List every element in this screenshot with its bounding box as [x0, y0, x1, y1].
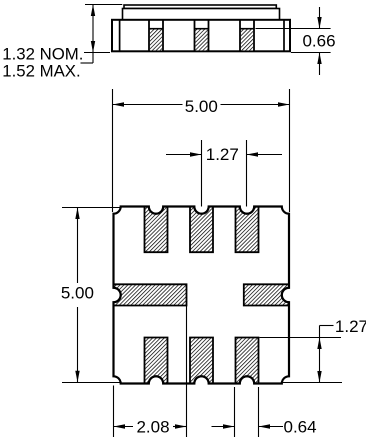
dimension 1.32/1.52 (left height) [81, 5, 123, 64]
svg-text:1.27: 1.27 [335, 317, 366, 336]
pad top-3 [236, 207, 259, 253]
castellation notch bottom-1 [149, 376, 163, 383]
castellation notch right [282, 288, 289, 302]
package outline with corner cutouts [114, 207, 290, 384]
dimension 5.00 (left height) [62, 208, 120, 383]
svg-text:1.52 MAX.: 1.52 MAX. [2, 62, 80, 81]
svg-text:2.08: 2.08 [136, 417, 169, 436]
side pad 1 [149, 20, 163, 52]
dimension 0.66 (right height) [256, 7, 331, 75]
castellation notch top-2 [194, 207, 208, 214]
svg-text:5.00: 5.00 [61, 284, 94, 303]
pad top-2 [190, 207, 213, 253]
pad mid-left [114, 284, 187, 305]
castellation notch top-3 [240, 207, 254, 214]
pad bottom-3 [236, 338, 259, 384]
castellation notch bottom-2 [194, 376, 208, 383]
castellation notch bottom-3 [240, 376, 254, 383]
dimension 0.64 (bottom) [212, 387, 284, 437]
dimension 1.27 (top, between pads) [166, 140, 282, 211]
castellation notch top-1 [149, 207, 163, 214]
end cap right [283, 20, 285, 52]
body [112, 20, 290, 52]
svg-text:0.64: 0.64 [284, 417, 317, 436]
pad bottom-1 [145, 338, 168, 384]
castellation notch left [114, 288, 121, 302]
svg-text:5.00: 5.00 [185, 97, 218, 116]
pad bottom-2 [190, 338, 213, 384]
end cap left [119, 20, 121, 52]
lid upper step [124, 5, 276, 9]
pad mid-right [244, 284, 289, 305]
svg-text:0.66: 0.66 [302, 32, 335, 51]
dimension 1.27 (right, bottom pad height) [260, 326, 343, 383]
dimension 2.08 (bottom) [114, 306, 187, 437]
svg-text:1.27: 1.27 [206, 145, 239, 164]
lid lower step [123, 9, 280, 20]
side pad 2 [195, 20, 209, 52]
pad top-1 [145, 207, 168, 253]
dimension 5.00 (top width) [113, 89, 290, 212]
side pad 3 [240, 20, 254, 52]
